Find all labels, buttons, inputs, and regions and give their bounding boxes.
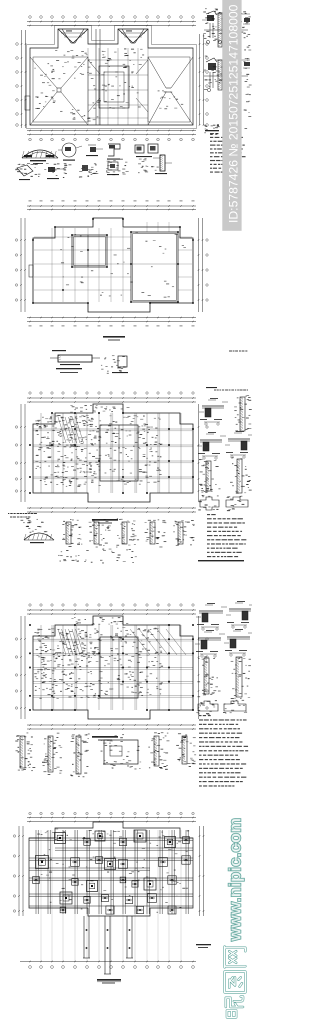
watermark nipic teal: char ni (nickname) <box>226 997 243 1018</box>
svg-text:ID:5787426 № 20150725125147108: ID:5787426 № 20150725125147108000 <box>227 4 241 223</box>
CAD drawing sheet <box>0 0 252 1024</box>
section 4r: details column <box>195 560 255 787</box>
section 1b: detail row <box>15 133 245 180</box>
watermark nipic teal: char wang (net) <box>225 947 246 968</box>
section 1c: top right details <box>202 8 252 135</box>
svg-text:www.nipic.com: www.nipic.com <box>227 818 245 942</box>
section 2b: beam details <box>50 350 248 391</box>
section 3r: details column <box>197 387 254 511</box>
watermark gray band <box>222 0 241 231</box>
section 4: structural plan <box>15 604 208 741</box>
section 1: roof framing plan <box>16 16 209 141</box>
section 5: foundation plan <box>13 812 211 983</box>
watermark nipic teal: char tu (picture) <box>225 972 246 993</box>
section 2: floor plan <box>15 201 208 341</box>
section 3b: detail row <box>8 513 246 563</box>
section 4b: detail row <box>15 732 196 777</box>
section 3: structural plan <box>15 392 208 524</box>
